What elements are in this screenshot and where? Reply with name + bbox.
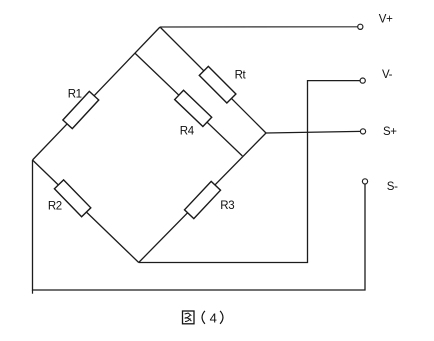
wire bottom-left bridge edge (L to B) [33,160,139,263]
svg-text:R2: R2 [48,200,62,212]
wire bottom-right bridge edge (B to R) [139,133,266,263]
resistor R4 [175,90,212,126]
wire bottom node to V- terminal [139,81,361,263]
wire top node to V+ terminal [160,26,358,28]
svg-text:R3: R3 [220,200,234,212]
wire left node to S- terminal [33,160,366,290]
svg-text:4: 4 [210,310,217,325]
terminal V+ [358,24,363,29]
svg-text:V-: V- [382,69,393,81]
terminal S+ [360,129,365,134]
svg-text:R1: R1 [68,88,82,100]
wire right node to S+ terminal [266,131,361,133]
svg-text:Rt: Rt [235,70,247,82]
resistor R2 [54,180,90,217]
wire small overshoot at left-bottom junction [32,290,34,294]
svg-text:V+: V+ [379,13,393,25]
wire top-right bridge edge (T to R) [160,27,266,133]
svg-text:R4: R4 [180,126,195,138]
svg-text:S-: S- [387,181,398,193]
terminal S- [362,179,367,184]
wire top-left bridge edge (L to T) [33,27,161,160]
caption left paren （ [202,311,205,324]
caption glyph 图 (drawn as box with strokes) [183,311,195,324]
terminal V- [360,78,365,83]
wire inner branch for R4 (node J1 to node J2) [135,53,243,156]
resistor R3 [184,181,220,218]
svg-text:S+: S+ [383,126,397,138]
resistor R1 [63,91,99,128]
resistor Rt [199,66,236,103]
caption right paren ） [220,311,223,324]
